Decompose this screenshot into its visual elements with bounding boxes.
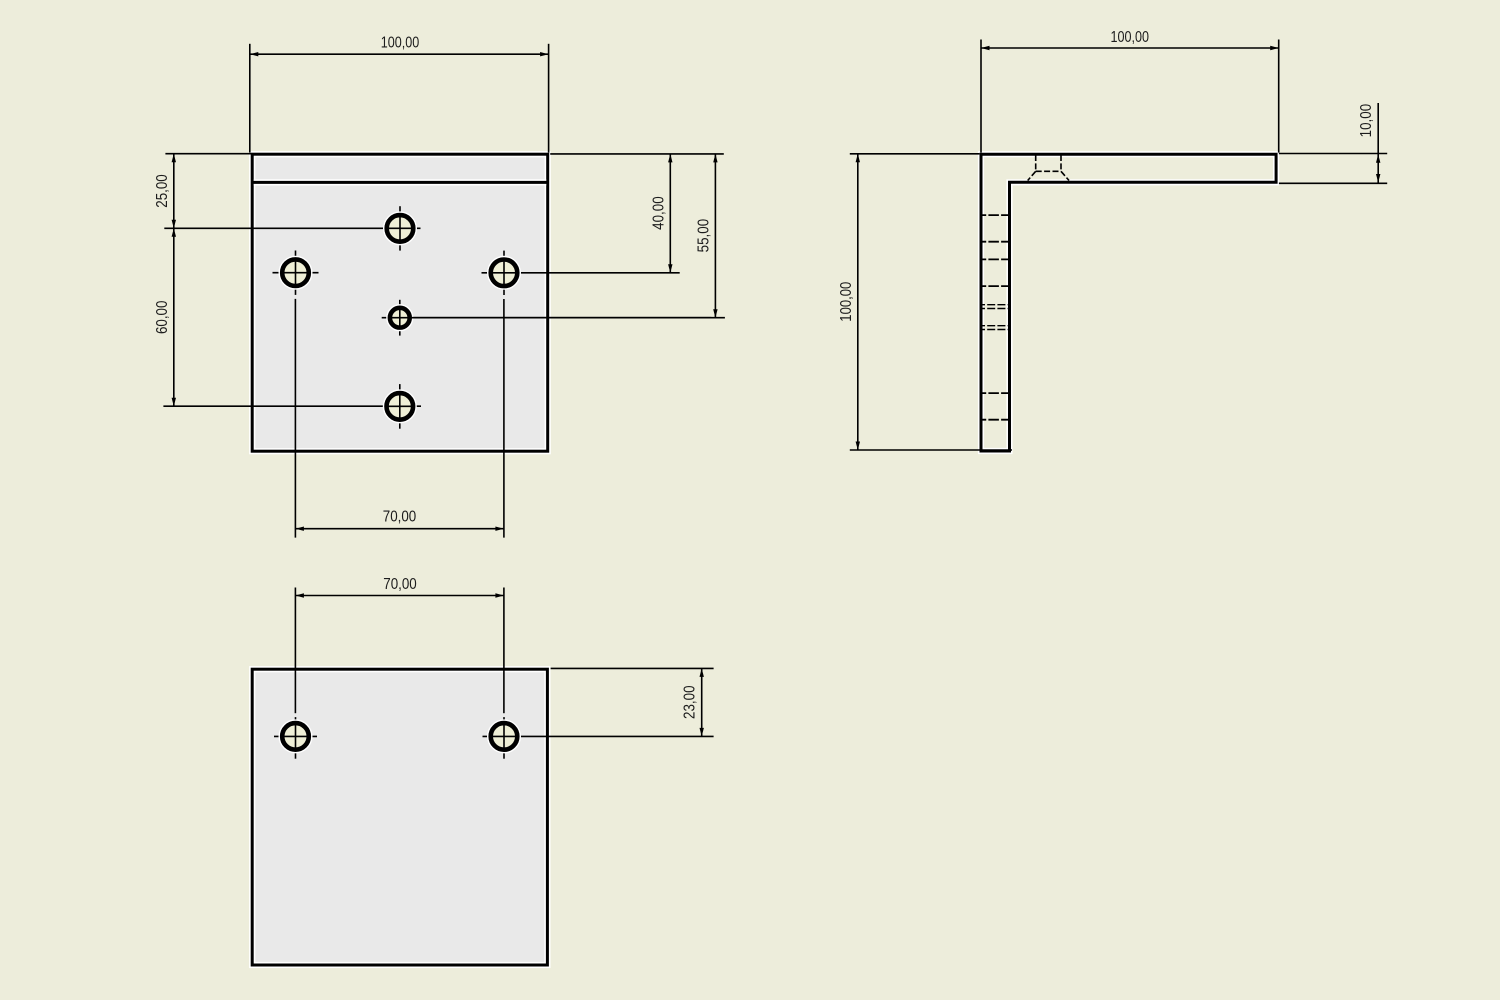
dim 70,00 front: left arrow [295,527,304,531]
dim 70,00 bottom: right extension line [503,588,505,714]
dim 100,00 side left: top arrow [856,154,860,163]
dim 70,00 bottom: dimension line [295,595,504,597]
bottom hole B1 left [274,717,317,759]
svg-text:40,00: 40,00 [650,196,667,230]
hidden line hole H4 thread upper edge [981,304,1010,306]
countersink hidden left flare [1028,171,1036,180]
countersink hidden left vertical [1035,155,1037,171]
dim 100,00 side left: dimension line [857,154,859,450]
dim 100,00 front: dimension line [250,53,549,55]
dim 25,00: bottom arrow [172,220,176,229]
svg-text:100,00: 100,00 [381,35,420,52]
hidden line hole H5 upper edge [981,392,1010,394]
hidden line holes H2/H3 upper edge [981,258,1010,260]
bottom plate body [252,669,547,965]
svg-text:100,00: 100,00 [1111,29,1150,46]
dim 10,00: dimension line [1377,103,1379,183]
dim 100,00 side left: top extension line [850,153,980,155]
dim 100,00 side left: bottom extension line [850,449,1012,451]
hole H4 middle small [382,300,725,336]
dim 10,00: bottom extension line [1279,182,1387,184]
dim 23,00: top arrow [700,668,704,677]
dim 25,00: dimension line [173,154,175,229]
dim 100,00 side top: right arrow [1270,46,1279,50]
svg-text:23,00: 23,00 [682,685,699,719]
hidden line hole H4 thread lower edge [981,329,1010,331]
hole H3 right [482,251,680,295]
dim 25,00: top arrow [172,154,176,163]
dim 40,00/55,00 shared top extension line [550,153,724,155]
dim 100,00 front: right extension line [548,44,550,153]
dim 10,00: lower arrow [1376,174,1380,183]
dim 60,00: top arrow [172,228,176,237]
front plate body [252,154,548,451]
countersink hidden right vertical [1060,155,1062,171]
dim 70,00 front: right extension line [503,299,505,538]
hidden line hole H1 upper edge [981,214,1010,216]
svg-text:10,00: 10,00 [1358,104,1375,138]
dim 55,00: dimension line [714,154,716,318]
dim 70,00 bottom: left arrow [295,593,304,597]
dim 100,00 side top: left arrow [981,46,990,50]
dim 70,00 front: dimension line [295,528,504,530]
svg-text:70,00: 70,00 [383,508,417,525]
dim 55,00: bottom arrow [713,309,717,318]
svg-text:60,00: 60,00 [154,300,171,334]
dim 10,00: upper arrow [1376,154,1380,163]
hole H2 left [273,251,319,295]
dim 23,00: top extension line [551,667,714,669]
dim 100,00 front: right arrow [540,52,549,56]
front flange edge line [252,179,548,185]
dim 23,00: dimension line [701,668,703,736]
dim 55,00: top arrow [713,154,717,163]
hidden line hole H1 lower edge [981,241,1010,243]
dim 70,00 bottom: right arrow [495,593,504,597]
countersink hidden horizontal [1036,170,1061,172]
hole H1 top [164,206,420,250]
dim 100,00 side top: left extension line [980,40,982,153]
side view L profile [981,154,1276,451]
dim 100,00 side top: right extension line [1278,40,1280,153]
dim 60,00: dimension line [173,228,175,406]
hidden line hole H4 upper edge [981,308,1010,310]
dim 70,00 bottom: left extension line [294,588,296,714]
hidden line hole H5 lower edge [981,419,1010,421]
hidden line hole H4 lower edge [981,325,1010,327]
svg-text:100,00: 100,00 [838,282,855,322]
dim 25,00: top extension line [165,153,251,155]
svg-text:55,00: 55,00 [695,219,712,253]
countersink hidden right flare [1061,171,1069,180]
dim 100,00 side top: dimension line [981,47,1279,49]
dim 40,00: bottom arrow [668,264,672,273]
hole H5 bottom [163,384,421,429]
dim 60,00: bottom arrow [172,398,176,407]
dim 100,00 front: left extension line [249,44,251,153]
dim 70,00 front: right arrow [495,527,504,531]
dim 70,00 front: left extension line [294,299,296,538]
dim 100,00 side left: bottom arrow [856,442,860,451]
dim 23,00: bottom arrow [700,728,704,737]
hidden line holes H2/H3 lower edge [981,285,1010,287]
dim 40,00: top arrow [668,154,672,163]
dim 100,00 front: left arrow [250,52,258,56]
svg-text:25,00: 25,00 [154,174,171,208]
bottom hole B2 right [483,717,714,759]
dim 10,00: top extension line [1279,153,1387,155]
svg-text:70,00: 70,00 [383,576,417,593]
dim 40,00: dimension line [669,154,671,273]
